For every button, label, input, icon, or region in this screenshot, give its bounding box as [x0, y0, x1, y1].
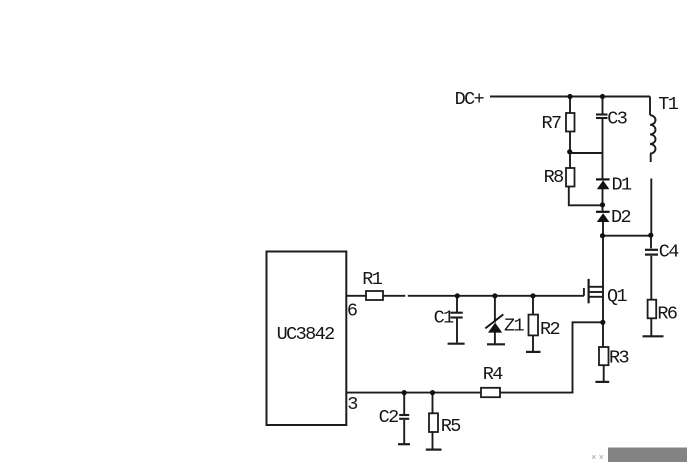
capacitor C2 [399, 415, 409, 419]
junction dot DC+/R7 [567, 94, 572, 99]
resistor R8 [566, 168, 575, 187]
svg-text:R5: R5 [441, 416, 461, 437]
capacitor C3 [596, 115, 608, 119]
wire pin3 line: UC3842 pin 3 to R4 [346, 392, 481, 394]
capacitor C4 [645, 250, 658, 255]
wire R1 to gate (segment 1) [383, 295, 405, 297]
ground bar under R2 [526, 351, 541, 353]
resistor R1 [366, 291, 383, 300]
svg-text:Q1: Q1 [607, 286, 628, 307]
svg-text:C1: C1 [434, 308, 455, 329]
wire C2 bottom lead [403, 420, 405, 444]
ground bar under C2 [398, 443, 410, 445]
ground bar under R3 [595, 381, 609, 383]
junction dot Q1 source node [600, 320, 605, 325]
wire Q1 gate stub [583, 288, 585, 296]
wire R5 top lead [432, 393, 434, 414]
wire R7/R8 node to C3 lead [570, 152, 603, 154]
svg-text:T1: T1 [658, 94, 679, 115]
wire drain node to C4 node [603, 235, 652, 237]
resistor R7 [566, 113, 575, 132]
wire C4 to R6 [650, 256, 652, 300]
wire right vertical to C4 node [650, 179, 652, 236]
svg-text:R8: R8 [544, 167, 564, 188]
svg-text:UC3842: UC3842 [277, 324, 335, 345]
zener diode Z1 [485, 314, 503, 332]
svg-text:Z1: Z1 [504, 316, 525, 337]
wire R5 bottom lead [432, 432, 434, 449]
wire pin6 gate line: UC3842 pin 6 to R1 [346, 295, 366, 297]
wire C3 to D1 [602, 119, 604, 178]
svg-text:D1: D1 [612, 174, 633, 195]
transistor Q1 MOSFET [589, 279, 604, 303]
svg-text:R1: R1 [362, 269, 383, 290]
svg-text:R3: R3 [609, 347, 629, 368]
watermark marks [592, 455, 603, 459]
junction dot gate/Z1 [492, 293, 497, 298]
capacitor C1 [450, 313, 462, 318]
wire C2 top lead [403, 393, 405, 414]
ground bar under Z1 [487, 343, 505, 345]
svg-text:6: 6 [347, 301, 357, 322]
svg-text:R6: R6 [657, 304, 677, 325]
wire Z1 top lead [494, 296, 496, 323]
wire C3 top lead [602, 97, 604, 114]
inductor T1 winding [650, 115, 656, 153]
wire D1 to D2 [602, 189, 604, 211]
junction dot gate/R2 [530, 293, 535, 298]
op-amp U1 UC3842 box [267, 252, 347, 426]
wire R3 top lead [602, 322, 604, 347]
junction dot gate/C1 [455, 293, 460, 298]
resistor R2 [529, 315, 539, 336]
svg-text:R7: R7 [542, 113, 562, 134]
junction dot C4 node right [648, 233, 653, 238]
svg-text:3: 3 [347, 394, 357, 415]
node DC+ supply rail [490, 96, 650, 98]
svg-text:D2: D2 [611, 207, 631, 228]
wire Z1 bottom lead [494, 332, 496, 343]
wire R8 bottom lead [569, 187, 603, 206]
wire R7 to R8 [569, 132, 571, 169]
wire R7 top lead [569, 97, 571, 114]
junction dot DC+/C3 [600, 94, 605, 99]
junction dot drain node left [600, 233, 605, 238]
svg-text:R2: R2 [540, 319, 560, 340]
resistor R4 [481, 388, 500, 397]
svg-text:DC+: DC+ [455, 89, 485, 110]
ground bar under C1 [448, 343, 465, 345]
junction dot D1/D2 node [600, 202, 605, 207]
diode D1 [596, 178, 610, 189]
wire R6 bottom lead [650, 318, 652, 335]
junction dot R7/R8 [567, 149, 572, 154]
wire R3 bottom lead [603, 365, 605, 381]
resistor R3 [599, 347, 609, 365]
wire R1 to gate (segment 2) [408, 295, 584, 297]
svg-text:C3: C3 [607, 109, 627, 130]
junction dot pin3/R5 [430, 390, 435, 395]
wire T1 bottom lead [650, 154, 652, 162]
wire C1 top lead [456, 296, 458, 312]
junction dot pin3/C2 [402, 390, 407, 395]
diode D2 [596, 211, 610, 222]
svg-text:R4: R4 [483, 364, 504, 385]
gray footer block [608, 448, 687, 462]
wire Q1 channel vertical (drain to source) [602, 287, 604, 322]
ground bar under R6 [643, 335, 664, 337]
wire R2 top lead [532, 296, 534, 315]
svg-text:C4: C4 [659, 241, 680, 262]
svg-text:C2: C2 [379, 407, 399, 428]
resistor R6 [648, 300, 657, 319]
wire T1 top lead [649, 97, 651, 116]
wire R4 to Q1 source [500, 322, 603, 392]
wire D2 to Q1 drain [602, 222, 604, 288]
wire C4 top lead [650, 236, 652, 249]
resistor R5 [429, 413, 438, 432]
wire C1 bottom lead [456, 318, 458, 342]
wire R2 bottom lead [532, 335, 534, 351]
ground bar under R5 [426, 449, 442, 451]
